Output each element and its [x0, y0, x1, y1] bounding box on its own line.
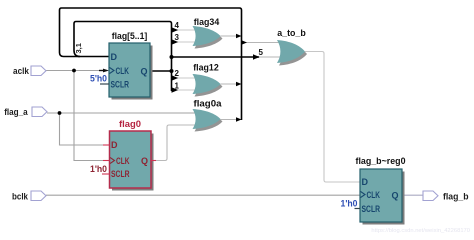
- or-gate flag12: [193, 63, 223, 97]
- wire flag12 input 2: [176, 77, 197, 79]
- svg-text:D: D: [111, 140, 118, 150]
- svg-text:https://blog.csdn.net/weixin_4: https://blog.csdn.net/weixin_42268170: [371, 228, 470, 234]
- svg-text:4: 4: [175, 21, 180, 30]
- svg-text:D: D: [362, 177, 369, 187]
- svg-text:SCLR: SCLR: [362, 204, 381, 214]
- wire merge bus to a_to_b input: [242, 42, 282, 44]
- svg-text:flag34: flag34: [194, 17, 220, 28]
- register flag_b~reg0: [341, 156, 406, 225]
- junction arrow flag34 output join: [236, 34, 242, 38]
- svg-text:1: 1: [175, 82, 180, 91]
- junction arrow flag0a output join: [236, 117, 242, 121]
- junction arrow tap bit5: [253, 54, 260, 59]
- svg-text:CLK: CLK: [367, 190, 381, 200]
- wire bclk net to flag_b~reg0 CLK: [46, 194, 360, 196]
- register flag[5..1]: [90, 31, 153, 100]
- svg-text:flag_b~reg0: flag_b~reg0: [356, 156, 406, 167]
- node aclk junction: [72, 69, 76, 73]
- input port flag_a: [32, 107, 47, 117]
- or-gate a_to_b: [277, 28, 307, 66]
- node Q bus junction upper: [170, 55, 174, 59]
- wire flag12 output to merge bus: [221, 83, 238, 85]
- wire flag_a net horizontal: [47, 112, 197, 114]
- or-gate flag0a: [193, 99, 223, 132]
- svg-text:Q: Q: [141, 156, 148, 166]
- svg-text:SCLR: SCLR: [111, 79, 130, 89]
- node Q bus junction lower: [170, 69, 174, 73]
- wire inner feedback loop bits 3,1 (Q bus to flag[5..1] D): [74, 22, 172, 92]
- junction arrow flag12 output join: [236, 82, 242, 86]
- svg-text:1'h0: 1'h0: [90, 164, 107, 174]
- wire flag34 output to merge bus: [221, 35, 238, 37]
- svg-text:aclk: aclk: [13, 66, 30, 77]
- wire flag0 Q to flag0a input: [151, 125, 197, 161]
- svg-text:flag0: flag0: [119, 119, 141, 130]
- wire outer feedback loop (gate outputs merge bus to flag[5..1] D): [60, 8, 242, 120]
- svg-text:flag12: flag12: [193, 63, 219, 74]
- wire aclk branch down to flag0 CLK: [74, 71, 110, 161]
- junction arrow tap bit2: [172, 75, 179, 80]
- svg-text:3,1: 3,1: [74, 43, 83, 53]
- svg-text:2: 2: [175, 69, 180, 78]
- junction arrow tap bit4: [172, 27, 179, 32]
- svg-text:5: 5: [259, 48, 264, 57]
- svg-text:flag_b: flag_b: [443, 191, 469, 202]
- svg-text:SCLR: SCLR: [111, 169, 130, 179]
- wire flag[5..1] Q stub to bus: [151, 70, 172, 72]
- svg-text:flag[5..1]: flag[5..1]: [112, 31, 148, 42]
- wire bit5 tap gray segment to a_to_b input: [259, 56, 281, 58]
- svg-text:a_to_b: a_to_b: [277, 28, 306, 39]
- register flag0 (selected, red): [90, 119, 156, 191]
- wire flag_b~reg0 Q to output port: [402, 194, 423, 196]
- node flag_a junction: [58, 111, 62, 115]
- svg-text:D: D: [111, 52, 118, 62]
- or-gate flag34: [193, 17, 223, 49]
- input port bclk: [31, 191, 46, 201]
- svg-text:bclk: bclk: [12, 191, 29, 202]
- svg-text:flag_a: flag_a: [4, 107, 28, 118]
- input port aclk: [31, 66, 46, 76]
- wire flag34 input 3: [176, 41, 197, 43]
- output port flag_b: [423, 191, 438, 201]
- svg-text:Q: Q: [140, 66, 147, 76]
- svg-text:Q: Q: [391, 190, 398, 200]
- wire flag12 input 1: [176, 89, 197, 91]
- wire aclk net horizontal: [46, 70, 100, 72]
- svg-text:1'h0: 1'h0: [341, 198, 358, 208]
- svg-text:CLK: CLK: [116, 156, 130, 166]
- junction arrow bus exit to a_to_b: [242, 40, 248, 44]
- junction arrow tap bit1: [172, 87, 179, 92]
- wire flag_a branch down to flag0 D: [60, 113, 110, 145]
- wire bit5 tap black segment: [172, 56, 260, 58]
- svg-text:5'h0: 5'h0: [90, 73, 107, 83]
- svg-text:flag0a: flag0a: [194, 99, 223, 110]
- junction arrow tap bit3: [172, 39, 179, 44]
- svg-text:CLK: CLK: [116, 66, 130, 76]
- wire flag34 input 4: [176, 29, 197, 31]
- svg-text:3: 3: [175, 33, 180, 42]
- wire flag0a output to merge bus: [221, 119, 238, 121]
- wire a_to_b output to flag_b~reg0 D: [305, 52, 360, 183]
